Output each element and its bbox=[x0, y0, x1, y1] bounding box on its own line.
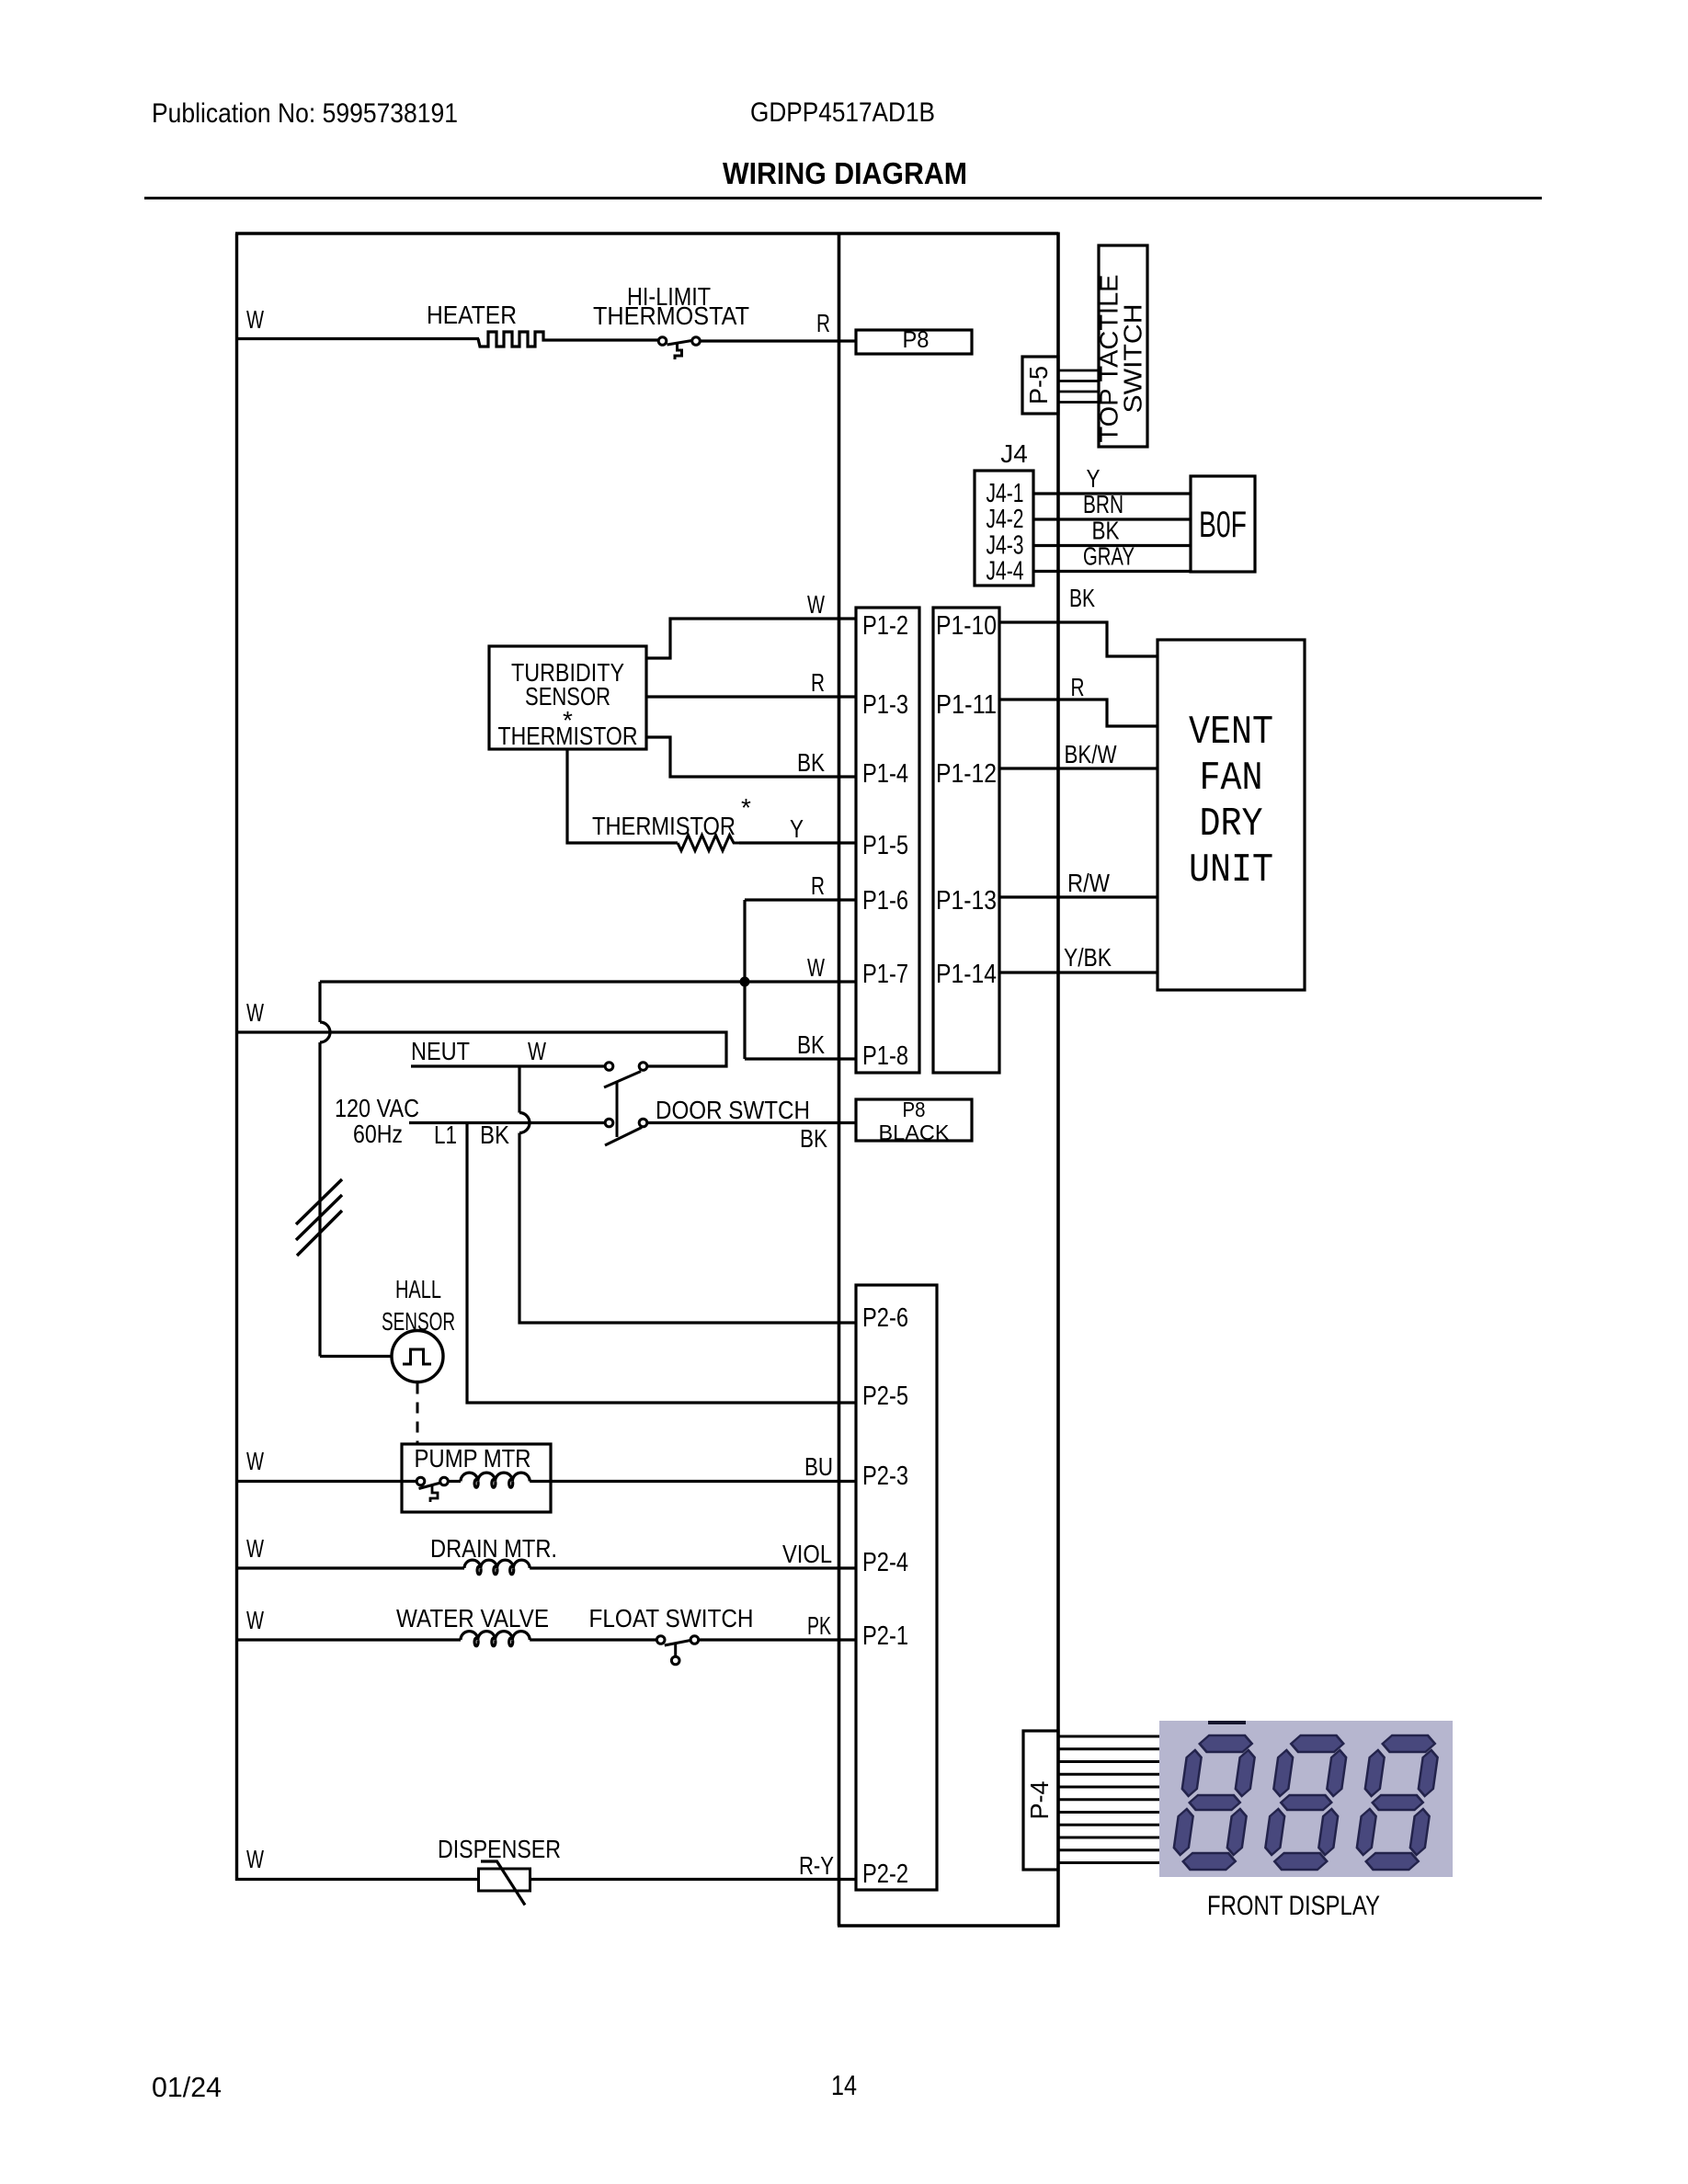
wire W turbidity to P1-2 bbox=[646, 619, 856, 658]
wire water valve row bbox=[235, 1638, 461, 1641]
svg-text:*: * bbox=[741, 793, 751, 822]
svg-text:P2-3: P2-3 bbox=[862, 1462, 908, 1491]
wire R P1-11 to vent unit bbox=[999, 700, 1158, 726]
wire W to P1-7 bbox=[320, 980, 856, 983]
wire float switch to P2-1 bbox=[699, 1638, 856, 1641]
door switch lower contacts bbox=[605, 1119, 613, 1127]
svg-text:R-Y: R-Y bbox=[799, 1851, 834, 1880]
svg-text:P2-4: P2-4 bbox=[862, 1548, 908, 1577]
wire drain row bbox=[235, 1566, 464, 1569]
svg-text:GDPP4517AD1B: GDPP4517AD1B bbox=[750, 97, 935, 128]
wire switch to coil bbox=[449, 1480, 462, 1483]
svg-text:J4: J4 bbox=[1000, 439, 1028, 468]
svg-text:P-4: P-4 bbox=[1025, 1781, 1054, 1820]
svg-text:J4-2: J4-2 bbox=[987, 505, 1024, 534]
svg-text:VIOL: VIOL bbox=[782, 1540, 832, 1568]
svg-text:Y: Y bbox=[1087, 464, 1101, 493]
wire to hall sensor bbox=[320, 1355, 392, 1358]
svg-text:P1-11: P1-11 bbox=[936, 690, 997, 720]
svg-text:L1: L1 bbox=[434, 1120, 457, 1149]
connector P1 left column bbox=[856, 608, 919, 1073]
svg-text:WIRING DIAGRAM: WIRING DIAGRAM bbox=[723, 156, 967, 190]
svg-text:P1-6: P1-6 bbox=[862, 886, 908, 916]
wire L1/BK down to P2-5 bbox=[467, 1123, 856, 1404]
wire J4-2 to BOF bbox=[1033, 518, 1191, 520]
svg-text:W: W bbox=[528, 1037, 546, 1065]
wire BK to P1-8 bbox=[745, 1057, 856, 1060]
wire R turbidity to P1-3 bbox=[646, 695, 856, 698]
svg-text:R: R bbox=[811, 668, 825, 697]
svg-text:DOOR SWTCH: DOOR SWTCH bbox=[656, 1096, 810, 1124]
svg-text:P2-6: P2-6 bbox=[862, 1303, 908, 1333]
wire heater row left segment bbox=[235, 337, 479, 340]
wire pump row left bbox=[235, 1480, 417, 1483]
svg-text:W: W bbox=[246, 1447, 264, 1475]
wire Y/BK P1-14 to vent unit bbox=[999, 971, 1158, 973]
svg-text:Publication No: 5995738191: Publication No: 5995738191 bbox=[152, 98, 458, 129]
box PUMP MTR bbox=[402, 1444, 551, 1512]
wire BK door switch to P8 BLACK bbox=[647, 1121, 856, 1124]
connector J4 bbox=[975, 471, 1033, 586]
wires P-4 to front display bbox=[1058, 1735, 1160, 1738]
svg-text:NEUT: NEUT bbox=[411, 1037, 470, 1065]
svg-text:BLACK: BLACK bbox=[879, 1120, 951, 1144]
svg-text:P2-1: P2-1 bbox=[862, 1621, 908, 1651]
svg-text:W: W bbox=[807, 590, 825, 619]
svg-text:BRN: BRN bbox=[1083, 490, 1123, 518]
door switch upper contacts bbox=[605, 1063, 613, 1071]
wire BK P1-10 to vent unit bbox=[999, 622, 1158, 656]
pump motor coil bbox=[461, 1473, 530, 1487]
svg-text:FRONT DISPLAY: FRONT DISPLAY bbox=[1207, 1891, 1380, 1921]
wire: trunk bottom join bbox=[838, 1924, 1060, 1928]
svg-text:P1-13: P1-13 bbox=[936, 886, 997, 916]
svg-text:DISPENSER: DISPENSER bbox=[438, 1835, 561, 1863]
svg-text:PUMP MTR: PUMP MTR bbox=[415, 1444, 531, 1473]
connector P8 BLACK bbox=[856, 1099, 972, 1141]
svg-text:HEATER: HEATER bbox=[427, 301, 517, 329]
wire NEUT to door switch bbox=[411, 1064, 605, 1067]
wire W bus U-shape to door switch bbox=[235, 1032, 726, 1066]
wire 120VAC L1 to door switch bbox=[409, 1121, 605, 1124]
svg-text:HALL: HALL bbox=[395, 1275, 441, 1303]
pump thermal switch bbox=[416, 1477, 425, 1485]
title rule bbox=[144, 197, 1542, 199]
connector P-4 bbox=[1023, 1731, 1058, 1870]
svg-text:PK: PK bbox=[807, 1611, 831, 1640]
box VENT FAN DRY UNIT bbox=[1158, 640, 1305, 990]
wire heater to thermostat bbox=[545, 338, 659, 341]
svg-text:DRAIN MTR.: DRAIN MTR. bbox=[430, 1534, 557, 1563]
heater element bbox=[478, 332, 545, 347]
svg-text:FLOAT SWITCH: FLOAT SWITCH bbox=[589, 1604, 754, 1632]
dashed link hall sensor to pump bbox=[416, 1383, 419, 1444]
svg-text:J4-4: J4-4 bbox=[987, 557, 1024, 586]
strain relief hash marks bbox=[296, 1179, 342, 1224]
svg-text:BK: BK bbox=[797, 748, 825, 777]
wire R loop P1-6 bbox=[745, 898, 856, 901]
svg-text:R/W: R/W bbox=[1067, 869, 1110, 897]
wire: control board trunk left bbox=[838, 233, 841, 1927]
svg-text:VENT: VENT bbox=[1189, 710, 1273, 756]
svg-text:BK: BK bbox=[1069, 584, 1095, 612]
svg-text:P8: P8 bbox=[903, 327, 930, 353]
water valve coil bbox=[461, 1632, 530, 1646]
wire: control board trunk right bbox=[1056, 233, 1060, 1928]
svg-text:DRY: DRY bbox=[1200, 802, 1263, 847]
svg-text:BU: BU bbox=[804, 1452, 833, 1481]
wire J4-4 to BOF bbox=[1033, 570, 1191, 573]
svg-text:R: R bbox=[1071, 673, 1085, 701]
float switch bbox=[656, 1636, 665, 1644]
svg-text:FAN: FAN bbox=[1200, 756, 1263, 802]
thermistor with resistor to P1-5 bbox=[567, 749, 678, 843]
connector P-5 bbox=[1022, 357, 1058, 414]
wire BK turbidity to P1-4 bbox=[646, 737, 856, 777]
svg-text:BK: BK bbox=[797, 1030, 825, 1059]
svg-text:THERMISTOR: THERMISTOR bbox=[592, 812, 736, 840]
svg-text:Y: Y bbox=[790, 814, 804, 843]
svg-text:THERMISTOR: THERMISTOR bbox=[498, 722, 638, 750]
wire pump to P2-3 bbox=[530, 1480, 856, 1483]
svg-text:Y/BK: Y/BK bbox=[1064, 943, 1112, 972]
wire BK/W P1-12 to vent unit bbox=[999, 767, 1158, 769]
svg-text:01/24: 01/24 bbox=[152, 2071, 222, 2103]
svg-text:W: W bbox=[807, 953, 825, 982]
vertical loop wire P1-6 to P1-8 bbox=[743, 900, 746, 1059]
wire thermostat to P8 bbox=[700, 339, 856, 342]
front display digit 2 bbox=[1262, 1735, 1350, 1870]
svg-text:14: 14 bbox=[831, 2069, 857, 2101]
svg-text:THERMOSTAT: THERMOSTAT bbox=[593, 301, 749, 330]
svg-text:W: W bbox=[246, 305, 264, 334]
junction dot bbox=[740, 977, 750, 987]
box TURBIDITY SENSOR / THERMISTOR bbox=[489, 646, 646, 749]
svg-text:P1-12: P1-12 bbox=[936, 759, 997, 789]
svg-text:120 VAC: 120 VAC bbox=[335, 1094, 419, 1122]
wire R/W P1-13 to vent unit bbox=[999, 895, 1158, 898]
front display digit 1 bbox=[1170, 1735, 1258, 1870]
wire W neutral down to P2-6 with hop bbox=[518, 1066, 520, 1113]
wires P-5 to top tactile switch bbox=[1058, 370, 1099, 372]
svg-text:P8: P8 bbox=[903, 1098, 926, 1121]
hall sensor circle bbox=[392, 1331, 443, 1382]
svg-text:P1-5: P1-5 bbox=[862, 831, 908, 860]
svg-text:W: W bbox=[246, 1534, 264, 1563]
svg-text:P1-10: P1-10 bbox=[936, 611, 997, 641]
svg-text:P1-7: P1-7 bbox=[862, 960, 908, 989]
svg-text:BK/W: BK/W bbox=[1065, 740, 1117, 768]
svg-text:BK: BK bbox=[480, 1120, 509, 1149]
dark mark at bezel top bbox=[1208, 1721, 1246, 1724]
wire: outer left edge (W bus) bbox=[235, 233, 238, 1881]
connector P1 right column bbox=[933, 608, 999, 1073]
svg-text:R: R bbox=[816, 309, 830, 337]
wire dispenser to P2-2 bbox=[530, 1878, 857, 1881]
svg-text:BK: BK bbox=[800, 1124, 827, 1153]
svg-text:60Hz: 60Hz bbox=[353, 1120, 403, 1148]
connector P8 bbox=[856, 330, 972, 354]
front display bezel bbox=[1159, 1721, 1453, 1877]
svg-text:P1-2: P1-2 bbox=[862, 611, 908, 641]
svg-text:W: W bbox=[246, 998, 264, 1027]
drain motor coil bbox=[464, 1560, 530, 1575]
svg-text:P1-14: P1-14 bbox=[936, 960, 997, 989]
wire J4-3 to BOF bbox=[1033, 544, 1191, 547]
wire J4-1 to BOF bbox=[1033, 492, 1191, 495]
svg-text:P1-4: P1-4 bbox=[862, 759, 908, 789]
svg-text:W: W bbox=[246, 1845, 264, 1873]
wire vertical W from P1-7 down to hall sensor with hop bbox=[318, 982, 321, 1022]
svg-text:P1-8: P1-8 bbox=[862, 1041, 908, 1071]
connector P2 bbox=[856, 1285, 937, 1890]
resistor zigzag bbox=[678, 836, 739, 851]
dispenser thermistor symbol bbox=[479, 1869, 530, 1891]
svg-text:WATER VALVE: WATER VALVE bbox=[396, 1604, 549, 1632]
svg-text:UNIT: UNIT bbox=[1189, 847, 1273, 893]
box BOF bbox=[1191, 476, 1255, 572]
svg-text:W: W bbox=[246, 1606, 264, 1634]
front display digit 3 bbox=[1353, 1735, 1441, 1870]
svg-text:GRAY: GRAY bbox=[1083, 542, 1135, 571]
wire: outer top edge bbox=[235, 232, 1058, 234]
svg-text:P2-5: P2-5 bbox=[862, 1382, 908, 1411]
pulse symbol bbox=[403, 1349, 431, 1364]
door switch mechanical link bbox=[616, 1082, 619, 1137]
svg-text:BK: BK bbox=[1092, 517, 1120, 545]
svg-text:P-5: P-5 bbox=[1024, 366, 1053, 404]
svg-text:P2-2: P2-2 bbox=[862, 1860, 908, 1889]
box TOP TACTILE SWITCH bbox=[1099, 245, 1147, 447]
wire dispenser row left bbox=[235, 1878, 479, 1881]
hi-limit thermostat switch bbox=[658, 337, 667, 346]
svg-text:P1-3: P1-3 bbox=[862, 690, 908, 720]
svg-text:R: R bbox=[811, 871, 825, 900]
svg-text:B0F: B0F bbox=[1199, 505, 1247, 545]
